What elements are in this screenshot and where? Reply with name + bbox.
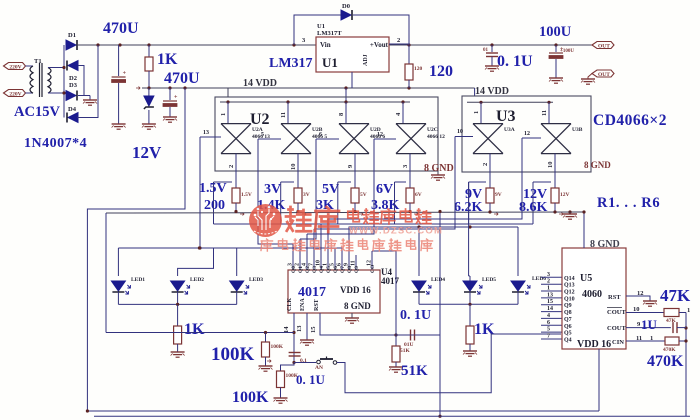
IC U4 4017 box (287, 264, 380, 313)
svg-text:LED2: LED2 (190, 277, 204, 283)
capacitor C7 1U (673, 322, 686, 333)
zener D5 12V (144, 88, 154, 124)
svg-text:5V: 5V (360, 192, 367, 198)
svg-text:Q6: Q6 (564, 324, 572, 330)
wire D2-D3 right link (78, 66, 84, 96)
svg-text:Q5: Q5 (326, 266, 332, 273)
switch AN pushbutton (315, 357, 337, 372)
connector OUT1 (592, 42, 614, 50)
svg-text:15: 15 (547, 299, 553, 305)
text 3V tap (264, 182, 281, 197)
svg-text:T1: T1 (34, 58, 42, 65)
text 470U second (164, 70, 200, 87)
svg-text:14 VDD: 14 VDD (475, 86, 509, 97)
text 5V tap (322, 182, 339, 197)
svg-text:470K: 470K (647, 353, 684, 370)
analog switch U2A (221, 124, 270, 154)
text 1K (157, 51, 178, 68)
svg-text:+: + (123, 71, 127, 77)
svg-text:U5: U5 (580, 273, 592, 284)
svg-text:0.1: 0.1 (300, 358, 307, 364)
ground C2 (163, 117, 177, 122)
text 1K row1 (184, 321, 205, 338)
svg-text:6: 6 (337, 263, 343, 266)
svg-text:VDD 16: VDD 16 (340, 285, 371, 295)
wire U5 COUT pin9 (626, 321, 671, 328)
svg-text:LED1: LED1 (131, 277, 145, 283)
resistor R13 51K (392, 335, 411, 367)
wire secondary top to bridge (48, 67, 64, 69)
text 0.1U series (400, 308, 431, 323)
wire U2 inner pin line (220, 100, 410, 103)
text 1K row2 (474, 321, 495, 338)
svg-text:Q3: Q3 (312, 266, 318, 273)
wire tap bus (214, 223, 534, 225)
svg-text:11: 11 (351, 260, 357, 266)
wire CO coupling (372, 251, 396, 335)
svg-text:8 GND: 8 GND (424, 163, 454, 174)
text 0.1U clk (296, 372, 326, 387)
svg-text:2: 2 (295, 263, 301, 266)
wire U2D ctrl (316, 132, 339, 139)
wire tap column 6 (533, 182, 551, 224)
IC U5 4060 box (562, 248, 626, 350)
svg-text:Q4: Q4 (319, 266, 325, 273)
wire LED2 feed (178, 248, 214, 276)
svg-text:3: 3 (547, 272, 550, 278)
svg-text:13: 13 (547, 292, 553, 298)
svg-text:3V: 3V (303, 192, 310, 198)
capacitor C1 470U (112, 45, 127, 124)
wire 12V rail (136, 86, 475, 89)
wire top rail +V (77, 43, 592, 46)
wire U4 top pin stubs (288, 219, 373, 270)
svg-text:AC15V: AC15V (14, 104, 60, 120)
text 100K first (211, 344, 255, 365)
svg-text:ENA: ENA (300, 298, 306, 311)
diode D2 (67, 61, 78, 83)
wire U5 RST pin12 (626, 290, 650, 301)
ground R9 (171, 352, 185, 357)
svg-text:4066 12: 4066 12 (427, 134, 445, 140)
text 470U main filter (103, 20, 139, 37)
text AC15V (14, 104, 60, 120)
svg-text:11: 11 (636, 335, 642, 342)
wire secondary bottom to bridge (48, 92, 64, 94)
diode D3 (66, 82, 78, 101)
connector J1 220V input top (4, 63, 26, 71)
svg-text:ADJ: ADJ (363, 54, 369, 66)
svg-text:Q1: Q1 (298, 266, 304, 273)
wire mid vertical (438, 210, 441, 418)
text 120 (429, 63, 453, 80)
svg-text:COUT: COUT (607, 309, 626, 316)
svg-text:6V: 6V (376, 182, 393, 197)
resistor R5 6.2K (486, 188, 502, 203)
wire U2C pin3 down (402, 154, 410, 188)
wire R5 bottom (490, 203, 498, 216)
text R1...R6 (597, 195, 660, 211)
wire ctrl U2A col (198, 137, 201, 250)
svg-text:D0: D0 (342, 3, 350, 10)
wire R4 bottom (410, 203, 418, 216)
svg-text:Q12: Q12 (564, 290, 575, 296)
wire LED3 feed (236, 248, 238, 276)
svg-text:Q9: Q9 (354, 266, 360, 273)
svg-text:CLK: CLK (287, 298, 293, 311)
resistor R15 470K (663, 337, 688, 353)
svg-text:120: 120 (414, 66, 423, 72)
svg-text:1: 1 (650, 335, 653, 342)
ground bridge (83, 100, 97, 105)
wire U2B ctrl (258, 132, 281, 139)
resistor R6 8.6K (551, 188, 570, 203)
svg-text:Q4: Q4 (564, 338, 572, 344)
resistor R4 3.8K (406, 188, 422, 203)
svg-text:U3A: U3A (504, 127, 515, 133)
text 12V tap (523, 187, 547, 202)
wire U4 ENA pin13 (296, 313, 307, 340)
text 12V (132, 143, 162, 162)
wire LED5 feed (469, 182, 470, 281)
svg-text:LED5: LED5 (482, 277, 496, 283)
ground R13 (389, 367, 403, 372)
text U4 4017 side (381, 267, 400, 286)
svg-text:1: 1 (220, 113, 227, 116)
wire U2A pin2 down (228, 154, 236, 188)
wire R1 bottom (236, 203, 244, 216)
text 8.6K value (519, 200, 548, 215)
svg-text:Q0: Q0 (291, 266, 297, 273)
analog switch U2C (396, 124, 445, 154)
wire tap column 2 (281, 182, 294, 224)
svg-text:14: 14 (283, 326, 290, 333)
svg-text:7: 7 (309, 263, 315, 266)
svg-text:LED3: LED3 (249, 277, 263, 283)
ground C3 (485, 66, 499, 71)
svg-text:51K: 51K (400, 348, 411, 354)
wire U2A ctrl (200, 130, 221, 137)
svg-text:13: 13 (296, 325, 303, 332)
resistor R2 1.4K (294, 188, 310, 203)
svg-text:COUT: COUT (607, 325, 626, 332)
resistor R8 120 (405, 45, 423, 88)
ground bus symbol (563, 212, 577, 219)
wire U3 inner pin line (467, 101, 553, 104)
text 470K (647, 353, 684, 370)
svg-text:Vin: Vin (320, 41, 331, 49)
text 6.2K value (454, 200, 483, 215)
wire U2 pin11 stub (280, 102, 288, 124)
svg-text:2: 2 (228, 165, 235, 168)
wire U2 pin4 stub (395, 102, 403, 124)
svg-text:3: 3 (288, 263, 294, 266)
ground R11 (259, 366, 273, 371)
wire J2 to transformer (26, 92, 34, 94)
wire U3 pin11 stub (541, 102, 549, 123)
svg-text:U1: U1 (317, 23, 325, 30)
wire tap column 5 (469, 182, 486, 224)
svg-text:2: 2 (397, 37, 400, 44)
svg-text:RST: RST (608, 294, 621, 301)
diode D0 (341, 3, 352, 20)
svg-text:47K: 47K (660, 286, 691, 305)
ground zener (142, 124, 156, 129)
capacitor C6 0.1U series (396, 330, 440, 349)
svg-text:4017: 4017 (381, 276, 400, 286)
svg-text:0. 1U: 0. 1U (296, 372, 326, 387)
text 51K (401, 363, 428, 379)
svg-text:8: 8 (338, 112, 345, 116)
svg-text:Q14: Q14 (564, 276, 575, 282)
text 14 VDD left (243, 78, 277, 89)
svg-text:WWW.DZSC.COM: WWW.DZSC.COM (349, 226, 443, 237)
svg-text:D3: D3 (69, 82, 78, 89)
svg-text:470U: 470U (164, 70, 200, 87)
wire U5 VDD pin16 (598, 349, 600, 411)
wire tap column 1 (214, 182, 233, 224)
svg-text:13: 13 (203, 130, 209, 136)
svg-text:6V: 6V (415, 192, 422, 198)
wire outer bottom rail (94, 415, 690, 417)
ground ENA (300, 340, 314, 345)
svg-text:10: 10 (457, 129, 463, 135)
wire U3A ctrl (455, 129, 473, 137)
svg-text:14 VDD: 14 VDD (243, 78, 277, 89)
svg-text:1K: 1K (157, 51, 178, 68)
svg-text:Q5: Q5 (564, 331, 572, 337)
svg-text:3V: 3V (264, 182, 281, 197)
svg-text:1K: 1K (474, 321, 495, 338)
svg-text:1N4007*4: 1N4007*4 (24, 136, 87, 151)
LED LED5 (463, 277, 496, 294)
wire rail to U1 pin3 (302, 37, 306, 44)
svg-text:1.5V: 1.5V (199, 181, 227, 196)
svg-text:OUT: OUT (598, 72, 610, 78)
wire U3 pin1 stub (473, 102, 481, 123)
svg-text:6: 6 (319, 132, 322, 138)
svg-text:3: 3 (402, 164, 409, 168)
wire U2 pin1 stub (220, 88, 228, 124)
text 200 value (204, 198, 225, 213)
svg-text:1: 1 (473, 111, 480, 114)
svg-text:200: 200 (204, 198, 225, 213)
text 1.4K value (257, 198, 286, 213)
connector OUT2 (592, 70, 614, 78)
text 1U (641, 317, 658, 332)
svg-text:1K: 1K (184, 321, 205, 338)
svg-text:100K: 100K (211, 344, 255, 365)
svg-text:12V: 12V (560, 192, 570, 198)
wire LED4 feed (418, 227, 420, 276)
wire CLK pull line (106, 331, 294, 334)
svg-text:LED4: LED4 (431, 277, 445, 283)
svg-text:1: 1 (547, 286, 550, 292)
svg-text:Q6: Q6 (333, 266, 339, 273)
ground OUT2 (581, 79, 595, 84)
text 47K (660, 286, 691, 305)
resistor R3 3K (351, 188, 367, 203)
svg-text:5: 5 (261, 132, 264, 138)
wire R3 bottom (355, 203, 363, 216)
svg-text:4: 4 (302, 263, 308, 266)
wire U5 left pin stubs (541, 272, 562, 340)
svg-text:10: 10 (547, 162, 554, 169)
svg-text:+100U: +100U (560, 49, 574, 54)
svg-text:5: 5 (547, 327, 550, 333)
analog switch U2D (339, 124, 385, 154)
svg-text:51K: 51K (401, 363, 428, 379)
svg-text:LM317T: LM317T (317, 30, 342, 37)
svg-text:Q8: Q8 (564, 310, 572, 316)
svg-text:VDD 16: VDD 16 (577, 339, 611, 350)
svg-text:4017: 4017 (298, 285, 326, 300)
ground R10 (463, 351, 477, 356)
wire U5 gnd pin8 (582, 210, 585, 248)
svg-text:Q2: Q2 (305, 266, 311, 273)
ground U4 (345, 313, 359, 323)
svg-text:100K: 100K (271, 344, 284, 350)
svg-text:8 GND: 8 GND (584, 160, 611, 170)
svg-text:CD4066×2: CD4066×2 (593, 112, 667, 129)
wire D4 to top rail (77, 45, 98, 118)
svg-text:11: 11 (541, 110, 548, 116)
svg-text:9V: 9V (495, 192, 502, 198)
svg-text:100K: 100K (232, 389, 269, 406)
wire U2D pin9 down (347, 154, 355, 188)
resistor R10 1K (466, 304, 474, 351)
ground C4 (549, 78, 563, 83)
svg-text:5V: 5V (322, 182, 339, 197)
svg-text:7: 7 (547, 334, 550, 340)
text 1N4007*4 (24, 136, 87, 151)
LED LED1 (111, 277, 145, 294)
analog switch U3A (473, 124, 515, 154)
svg-text:12: 12 (637, 290, 644, 297)
svg-text:U3B: U3B (572, 127, 583, 133)
text 6V tap (376, 182, 393, 197)
wire LED6 feed (517, 227, 519, 276)
wire U5 COUTbar pin10 (626, 306, 664, 313)
svg-text:4: 4 (395, 112, 402, 116)
wire R6 bottom (555, 203, 563, 216)
svg-text:4060: 4060 (582, 289, 602, 300)
wire clk node to switch (294, 362, 316, 364)
text 3K value (316, 198, 334, 213)
wire bottom rail VDD (86, 409, 599, 412)
svg-text:Q8: Q8 (347, 266, 353, 273)
svg-text:1.5V: 1.5V (241, 192, 252, 198)
wire U3B pin10 down (547, 154, 555, 188)
svg-text:Q10: Q10 (564, 296, 575, 302)
svg-text:9: 9 (347, 164, 354, 168)
svg-text:D2: D2 (69, 75, 77, 82)
svg-text:R1. . . R6: R1. . . R6 (597, 195, 660, 211)
resistor R12 100K (277, 371, 299, 398)
svg-text:Q7: Q7 (340, 266, 346, 273)
wire OUT2 stub (588, 74, 592, 80)
wire U2B pin10 down (290, 154, 298, 188)
wire U4 CLK pin14 (283, 313, 296, 364)
svg-text:01: 01 (483, 48, 489, 53)
wire U2 pin8 stub (338, 102, 346, 124)
svg-text:1U: 1U (641, 317, 658, 332)
wire U4 RST pin15 (310, 313, 440, 337)
wire U3A pin2 down (482, 154, 490, 188)
svg-text:10: 10 (290, 164, 297, 171)
svg-text:12: 12 (377, 132, 383, 138)
wire ctrl U3B col (328, 138, 522, 219)
wire node 47K down (684, 313, 687, 417)
svg-text:15: 15 (310, 326, 317, 333)
wire U1 pin2 out (389, 37, 409, 44)
svg-text:U2C: U2C (427, 127, 438, 133)
svg-text:Q7: Q7 (564, 317, 572, 323)
op-amp U1 LM317 regulator box (316, 23, 389, 72)
svg-text:U2: U2 (250, 111, 270, 128)
svg-text:47K: 47K (666, 318, 677, 324)
text 8 GND U2 (424, 163, 454, 174)
LED LED2 (171, 277, 205, 294)
wire switch to U5 Q5 (337, 334, 561, 393)
text 100K second (232, 389, 269, 406)
svg-text:11: 11 (280, 112, 287, 118)
text pin 1 node (687, 307, 690, 314)
svg-text:9: 9 (344, 263, 350, 266)
wire ctrl U2C col (307, 139, 374, 234)
resistor R14 47K (664, 309, 686, 325)
svg-text:+Vout: +Vout (370, 41, 389, 49)
wire U2C ctrl (374, 132, 396, 139)
svg-text:2: 2 (547, 279, 550, 285)
svg-text:Q13: Q13 (564, 283, 575, 289)
wire tap column 4 (395, 182, 407, 224)
resistor R11 100K (262, 333, 284, 367)
svg-text:AN: AN (315, 365, 323, 371)
resistor R9 1K (174, 304, 182, 352)
svg-text:U1: U1 (322, 55, 338, 70)
text 1.5V tap (199, 181, 227, 196)
wire ctrl U2B col (258, 139, 293, 244)
text 0.1U out (497, 53, 533, 70)
svg-text:10: 10 (316, 260, 322, 266)
wire LED row1 cathode rail (118, 292, 236, 306)
wire U1 ADJ down (346, 72, 352, 102)
wire ctrl U2D col (300, 139, 316, 239)
ground R12 (274, 398, 288, 403)
svg-text:220V: 220V (9, 65, 21, 71)
transformer T1 (30, 58, 51, 97)
svg-text:CIN: CIN (612, 339, 624, 346)
ground RST (643, 301, 657, 306)
capacitor C3 0.1U (483, 45, 498, 66)
wire U5 CIN pin11 (626, 335, 665, 342)
wire LED bus row1 (118, 246, 342, 249)
capacitor C2 470U (163, 88, 178, 117)
wire ground bus (106, 210, 584, 333)
svg-text:1: 1 (323, 263, 329, 266)
svg-text:0. 1U: 0. 1U (400, 308, 431, 323)
text 8 GND U5 (590, 239, 620, 250)
diode D1 (66, 32, 77, 50)
svg-text:12: 12 (524, 131, 530, 137)
svg-text:Q9: Q9 (564, 303, 572, 309)
capacitor C4 100U (549, 45, 574, 78)
text CD4066x2 (593, 112, 667, 129)
svg-text:4: 4 (547, 313, 550, 319)
wire LED row2 cathode rail (419, 292, 518, 306)
svg-text:U3: U3 (496, 108, 516, 125)
